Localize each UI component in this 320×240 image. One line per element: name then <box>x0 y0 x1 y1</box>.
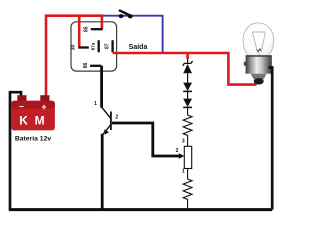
svg-text:M: M <box>35 114 45 128</box>
svg-text:1: 1 <box>182 169 185 175</box>
wire transistor base to potentiometer wiper <box>112 123 184 159</box>
diode D3 <box>183 99 192 108</box>
zener diode D1 <box>183 59 193 83</box>
relay pin 85 <box>91 28 103 30</box>
wire red stub to zener <box>186 53 189 59</box>
relay pin 87 <box>111 40 113 52</box>
wire transistor emitter to ground <box>101 134 104 210</box>
svg-text:85: 85 <box>84 26 90 32</box>
ground bus wire <box>9 208 272 211</box>
relay pin 30 <box>78 46 89 48</box>
wire red into relay pin 85 <box>101 15 104 30</box>
svg-text:2: 2 <box>115 115 118 121</box>
tip <box>254 78 264 84</box>
svg-text:87a: 87a <box>90 42 95 50</box>
svg-text:86: 86 <box>83 63 89 69</box>
resistor R1 <box>183 107 192 146</box>
transistor Q1 <box>94 101 118 135</box>
glass <box>243 23 274 56</box>
battery BAT1 12V <box>11 95 55 142</box>
svg-text:87: 87 <box>105 43 111 49</box>
svg-text:2: 2 <box>176 148 179 154</box>
wire blue (switch rail) <box>103 16 163 53</box>
base <box>246 55 272 73</box>
relay pin 87a <box>98 40 100 52</box>
potentiometer RV1 <box>176 139 192 175</box>
lamp LA1 <box>243 23 274 85</box>
wire red branch to relay pin 30 <box>78 16 81 47</box>
diode D2 <box>183 83 192 99</box>
svg-text:K: K <box>19 114 28 128</box>
switch S1 <box>119 11 133 19</box>
wire lamp to ground <box>269 68 273 210</box>
svg-text:3: 3 <box>182 139 185 145</box>
svg-text:Saída: Saída <box>129 44 148 51</box>
relay pin 86 <box>90 65 101 67</box>
svg-text:Bateria 12v: Bateria 12v <box>15 135 51 142</box>
svg-text:+: + <box>41 102 46 112</box>
taper <box>251 74 267 80</box>
filament <box>257 49 262 52</box>
svg-text:−: − <box>19 102 24 112</box>
resistor R2 <box>183 169 192 210</box>
wire relay pin 86 to transistor collector <box>100 66 103 108</box>
relay K1 body <box>71 22 117 71</box>
battery negative wire <box>10 92 21 209</box>
battery positive wire (red, to top rail) <box>46 16 103 97</box>
wire output Saida (red, relay 87 to lamp) <box>113 53 257 85</box>
svg-text:1: 1 <box>94 101 97 107</box>
stem <box>252 32 265 55</box>
svg-text:30: 30 <box>71 45 77 51</box>
